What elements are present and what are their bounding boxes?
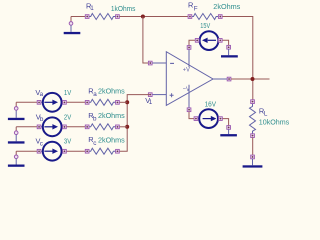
+V power line and label [188,49,190,67]
ground G2 for 15V [221,45,238,57]
junction node bus row B [125,125,129,129]
svg-text:1V: 1V [64,88,72,97]
plus symbol [170,93,174,97]
resistor Rb [85,124,119,130]
svg-text:2kOhms: 2kOhms [98,136,125,145]
15V source loop wires [189,40,195,45]
source V- 16V (arrow right) [194,109,222,128]
wire top rail left of R1 [71,16,85,18]
svg-text:+V: +V [183,66,191,73]
resistor RL (vertical) [250,100,256,138]
svg-text:2kOhms: 2kOhms [98,111,125,120]
svg-text:a: a [93,91,97,98]
wire bus row B [119,126,127,128]
svg-text:1: 1 [149,99,153,106]
svg-text:c: c [40,140,43,147]
minus input lead [152,62,166,64]
svg-text:1: 1 [90,5,94,12]
svg-text:2kOhms: 2kOhms [213,2,240,11]
output lead [213,78,227,80]
svg-text:2V: 2V [64,112,72,121]
ground GC [8,155,25,167]
svg-text:10kOhms: 10kOhms [259,118,290,127]
op-amp U1 [148,46,231,112]
wire ground stub top-left [70,17,72,22]
wire row A left [16,101,85,103]
svg-text:−V: −V [183,86,191,93]
wire ground stub row B [15,127,17,131]
wire ground stub row C [15,151,17,155]
output pin square [227,77,231,81]
svg-text:a: a [40,91,44,98]
resistor Rc [85,148,119,154]
+V pin square [187,46,191,50]
minus symbol [170,62,174,64]
source Vb (arrow right) [37,117,66,136]
junction node bus row A [125,100,129,104]
svg-text:R: R [188,1,193,10]
ground G4 bottom-right [243,155,263,168]
plus input lead [152,94,166,96]
resistor RF [188,14,222,20]
16V source loop wires [189,112,194,119]
input pin squares [148,61,152,65]
output wire [231,78,270,80]
wire RF to right corner and down to output node [222,17,253,100]
svg-text:2kOhms: 2kOhms [98,87,125,96]
ground GB [8,131,25,144]
svg-text:16V: 16V [205,100,217,109]
wire row C left [16,150,85,152]
wire minus branch down [143,17,149,64]
svg-text:15V: 15V [200,21,211,30]
resistor R1 [85,14,119,20]
ground G3 for 16V [220,126,237,137]
svg-text:L: L [264,111,268,118]
wire R1 to RF through node [119,16,188,18]
source Vc (arrow right) [37,142,66,161]
source V+ 15V (arrow left) [195,31,222,50]
wire ground stub row A [15,102,17,107]
resistor Ra [85,99,119,105]
junction node at output [251,77,255,81]
-V power line and label [188,85,190,108]
svg-text:3V: 3V [64,137,72,146]
wire bus row A [119,101,127,103]
wire RL to ground [252,138,254,156]
wire row B left [16,126,85,128]
junction node at R1/RF/minus branch [141,15,145,19]
-V pin square [187,108,191,112]
ground G1 top-left [64,22,81,35]
svg-text:b: b [93,116,97,123]
ground GA [8,107,25,121]
svg-text:c: c [93,140,96,147]
source Va (arrow right) [37,93,66,112]
svg-text:b: b [40,116,44,123]
svg-text:F: F [194,6,198,13]
plus branch bus [119,95,150,152]
svg-text:1kOhms: 1kOhms [111,4,136,13]
